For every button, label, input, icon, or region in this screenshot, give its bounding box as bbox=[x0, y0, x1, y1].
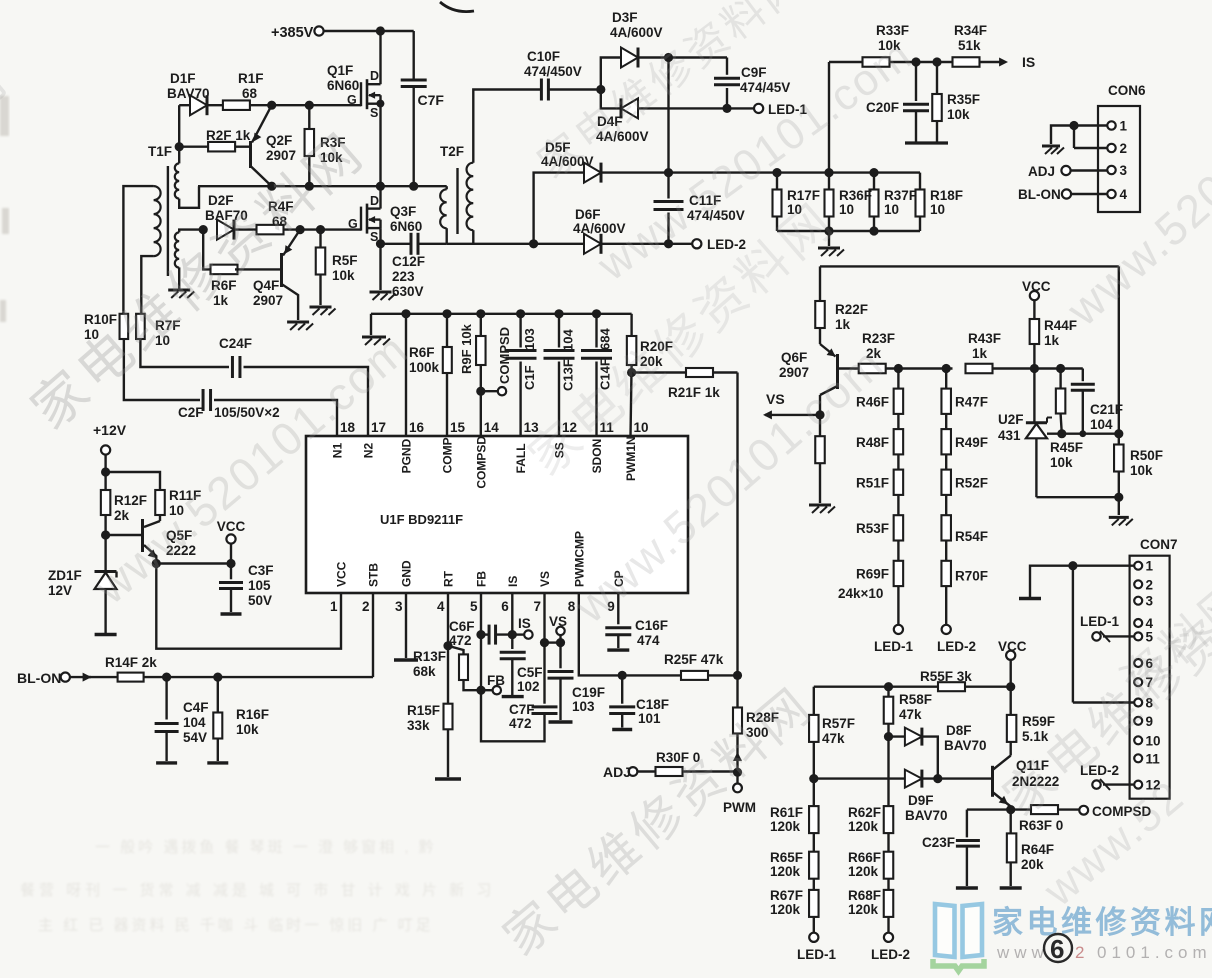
svg-text:R5F: R5F bbox=[332, 253, 358, 268]
svg-text:VCC: VCC bbox=[1022, 279, 1051, 294]
svg-text:10: 10 bbox=[634, 420, 649, 435]
svg-text:BAV70: BAV70 bbox=[167, 86, 210, 101]
svg-text:C5F: C5F bbox=[517, 665, 543, 680]
svg-text:D8F: D8F bbox=[946, 723, 972, 738]
svg-text:N1: N1 bbox=[331, 443, 345, 459]
svg-text:24k×10: 24k×10 bbox=[838, 586, 883, 601]
svg-text:0101.com: 0101.com bbox=[1097, 943, 1212, 962]
svg-text:+12V: +12V bbox=[93, 422, 127, 438]
svg-text:103: 103 bbox=[572, 699, 595, 714]
svg-text:C2F: C2F bbox=[178, 405, 204, 420]
svg-text:474/450V: 474/450V bbox=[524, 64, 582, 79]
svg-text:U2F: U2F bbox=[998, 412, 1024, 427]
svg-text:120k: 120k bbox=[770, 819, 801, 834]
svg-text:2907: 2907 bbox=[779, 365, 809, 380]
svg-text:3: 3 bbox=[1146, 594, 1154, 609]
svg-text:R54F: R54F bbox=[955, 529, 988, 544]
svg-text:102: 102 bbox=[517, 679, 540, 694]
svg-text:R14F 2k: R14F 2k bbox=[105, 655, 157, 670]
svg-text:R51F: R51F bbox=[856, 475, 889, 490]
svg-text:D: D bbox=[370, 69, 379, 83]
svg-text:101: 101 bbox=[638, 711, 661, 726]
svg-text:CON6: CON6 bbox=[1108, 83, 1146, 98]
svg-text:R69F: R69F bbox=[856, 566, 889, 581]
svg-text:G: G bbox=[348, 217, 358, 231]
svg-text:N2: N2 bbox=[362, 443, 376, 459]
svg-text:630V: 630V bbox=[392, 284, 424, 299]
svg-text:17: 17 bbox=[371, 420, 386, 435]
svg-text:R64F: R64F bbox=[1021, 842, 1054, 857]
svg-text:R35F: R35F bbox=[947, 92, 980, 107]
svg-text:Q3F: Q3F bbox=[390, 204, 416, 219]
svg-text:R25F 47k: R25F 47k bbox=[664, 652, 724, 667]
svg-text:33k: 33k bbox=[407, 718, 430, 733]
svg-text:Q1F: Q1F bbox=[327, 63, 353, 78]
svg-text:104: 104 bbox=[1090, 417, 1113, 432]
svg-text:R44F: R44F bbox=[1044, 318, 1077, 333]
svg-text:15: 15 bbox=[450, 420, 466, 435]
svg-text:4: 4 bbox=[437, 599, 445, 614]
svg-text:6N60: 6N60 bbox=[390, 219, 422, 234]
svg-text:1: 1 bbox=[330, 599, 338, 614]
svg-text:D9F: D9F bbox=[908, 793, 934, 808]
svg-text:PGND: PGND bbox=[400, 438, 414, 473]
svg-text:10: 10 bbox=[930, 202, 945, 217]
svg-text:68: 68 bbox=[242, 86, 258, 101]
svg-text:IS: IS bbox=[1022, 54, 1035, 70]
svg-text:STB: STB bbox=[367, 563, 381, 587]
svg-text:474/45V: 474/45V bbox=[740, 80, 790, 95]
svg-text:+385V: +385V bbox=[271, 25, 314, 41]
svg-text:ADJ: ADJ bbox=[603, 764, 631, 780]
svg-text:LED-1: LED-1 bbox=[874, 639, 913, 654]
svg-text:BL-ON: BL-ON bbox=[17, 670, 61, 686]
svg-text:FB: FB bbox=[475, 571, 489, 587]
svg-text:105: 105 bbox=[248, 578, 271, 593]
svg-text:472: 472 bbox=[509, 716, 532, 731]
svg-text:C23F: C23F bbox=[922, 835, 955, 850]
svg-text:COMPSD: COMPSD bbox=[474, 436, 488, 489]
svg-text:C12F: C12F bbox=[392, 254, 425, 269]
svg-text:C18F: C18F bbox=[636, 697, 669, 712]
svg-text:D2F: D2F bbox=[208, 193, 234, 208]
svg-text:4A/600V: 4A/600V bbox=[610, 25, 663, 40]
svg-text:LED-2: LED-2 bbox=[707, 237, 746, 252]
svg-text:6N60: 6N60 bbox=[327, 78, 359, 93]
svg-text:C7F: C7F bbox=[418, 92, 445, 108]
svg-text:C7F: C7F bbox=[509, 702, 535, 717]
svg-text:R18F: R18F bbox=[930, 188, 963, 203]
svg-text:104: 104 bbox=[183, 715, 206, 730]
svg-text:FB: FB bbox=[487, 673, 505, 688]
svg-text:LED-2: LED-2 bbox=[871, 947, 910, 962]
svg-text:COMPSD: COMPSD bbox=[497, 327, 512, 384]
svg-text:10k: 10k bbox=[332, 268, 355, 283]
svg-text:GND: GND bbox=[400, 560, 414, 587]
svg-text:684: 684 bbox=[598, 328, 613, 350]
svg-text:R62F: R62F bbox=[848, 805, 881, 820]
svg-text:120k: 120k bbox=[848, 819, 879, 834]
svg-text:Q2F: Q2F bbox=[266, 133, 292, 148]
svg-text:2: 2 bbox=[362, 599, 370, 614]
svg-text:11: 11 bbox=[1146, 751, 1161, 766]
svg-text:5: 5 bbox=[470, 599, 478, 614]
svg-text:120k: 120k bbox=[770, 864, 801, 879]
svg-text:Q4F: Q4F bbox=[253, 278, 279, 293]
svg-text:R49F: R49F bbox=[955, 435, 988, 450]
svg-text:D1F: D1F bbox=[170, 71, 196, 86]
svg-text:R9F 10k: R9F 10k bbox=[459, 323, 474, 374]
svg-text:BAV70: BAV70 bbox=[944, 738, 987, 753]
svg-text:C1F: C1F bbox=[522, 365, 537, 390]
svg-text:14: 14 bbox=[484, 420, 500, 435]
svg-text:RT: RT bbox=[442, 570, 456, 587]
svg-text:R47F: R47F bbox=[955, 394, 988, 409]
svg-text:U1F BD9211F: U1F BD9211F bbox=[380, 512, 463, 527]
svg-text:COMP: COMP bbox=[441, 437, 455, 473]
svg-text:C4F: C4F bbox=[183, 700, 209, 715]
svg-text:54V: 54V bbox=[183, 730, 207, 745]
svg-text:10k: 10k bbox=[947, 107, 970, 122]
svg-text:R21F 1k: R21F 1k bbox=[668, 385, 720, 400]
svg-text:51k: 51k bbox=[958, 38, 981, 53]
svg-text:C3F: C3F bbox=[248, 563, 274, 578]
svg-text:10k: 10k bbox=[1050, 455, 1073, 470]
svg-text:104: 104 bbox=[561, 329, 576, 351]
svg-text:BL-ON: BL-ON bbox=[1018, 187, 1061, 202]
svg-text:10k: 10k bbox=[236, 722, 259, 737]
svg-text:474: 474 bbox=[637, 633, 660, 648]
svg-text:120k: 120k bbox=[848, 902, 879, 917]
svg-text:R2F 1k: R2F 1k bbox=[206, 128, 251, 143]
svg-text:C6F: C6F bbox=[449, 619, 475, 634]
svg-text:R16F: R16F bbox=[236, 707, 269, 722]
svg-text:2907: 2907 bbox=[253, 293, 283, 308]
svg-text:R36F: R36F bbox=[839, 188, 872, 203]
svg-text:R67F: R67F bbox=[770, 888, 803, 903]
svg-text:50V: 50V bbox=[248, 593, 272, 608]
svg-text:R1F: R1F bbox=[238, 71, 264, 86]
svg-text:3: 3 bbox=[1120, 163, 1128, 178]
svg-text:家电维修资料网: 家电维修资料网 bbox=[992, 905, 1212, 940]
svg-text:R58F: R58F bbox=[899, 692, 932, 707]
svg-text:一 般吟 遇拨鱼 餐 琴斑 一 澄 够窗相 , 黔: 一 般吟 遇拨鱼 餐 琴斑 一 澄 够窗相 , 黔 bbox=[95, 838, 437, 856]
svg-text:R68F: R68F bbox=[848, 888, 881, 903]
svg-text:20k: 20k bbox=[1021, 857, 1044, 872]
svg-text:ZD1F: ZD1F bbox=[48, 568, 82, 583]
svg-text:R23F: R23F bbox=[862, 331, 895, 346]
svg-text:10: 10 bbox=[839, 202, 854, 217]
svg-text:4: 4 bbox=[1120, 187, 1128, 202]
svg-text:VCC: VCC bbox=[335, 561, 349, 587]
svg-text:C13F: C13F bbox=[561, 359, 576, 391]
svg-text:120k: 120k bbox=[848, 864, 879, 879]
svg-text:120k: 120k bbox=[770, 902, 801, 917]
svg-text:10: 10 bbox=[884, 202, 899, 217]
svg-text:BAV70: BAV70 bbox=[905, 808, 948, 823]
svg-text:10: 10 bbox=[1146, 733, 1161, 748]
svg-text:6: 6 bbox=[1050, 934, 1064, 964]
svg-text:IS: IS bbox=[518, 616, 531, 631]
svg-text:LED-1: LED-1 bbox=[797, 947, 836, 962]
svg-text:R22F: R22F bbox=[835, 302, 868, 317]
svg-text:LED-1: LED-1 bbox=[1080, 614, 1119, 629]
svg-text:7: 7 bbox=[534, 599, 542, 614]
svg-text:R50F: R50F bbox=[1130, 448, 1163, 463]
svg-text:R43F: R43F bbox=[968, 331, 1001, 346]
svg-text:R66F: R66F bbox=[848, 850, 881, 865]
svg-text:1: 1 bbox=[1120, 119, 1128, 134]
svg-text:R45F: R45F bbox=[1050, 440, 1083, 455]
svg-text:1k: 1k bbox=[972, 346, 988, 361]
svg-text:PWM1N: PWM1N bbox=[624, 436, 638, 481]
svg-text:R34F: R34F bbox=[954, 23, 987, 38]
svg-text:223: 223 bbox=[392, 269, 415, 284]
svg-text:47k: 47k bbox=[899, 707, 922, 722]
svg-text:VCC: VCC bbox=[998, 639, 1027, 654]
svg-text:S: S bbox=[370, 230, 378, 244]
svg-text:T2F: T2F bbox=[440, 144, 464, 159]
svg-text:C24F: C24F bbox=[219, 336, 252, 351]
svg-text:2: 2 bbox=[1120, 141, 1128, 156]
svg-text:餐营 呀刊 一 货常 减 减是 城 可 市 甘 计 戏 片: 餐营 呀刊 一 货常 减 减是 城 可 市 甘 计 戏 片 新 习 bbox=[20, 882, 495, 899]
svg-text:68k: 68k bbox=[413, 664, 436, 679]
svg-text:S: S bbox=[370, 106, 378, 120]
svg-text:R61F: R61F bbox=[770, 805, 803, 820]
svg-text:R53F: R53F bbox=[856, 521, 889, 536]
svg-text:2: 2 bbox=[1075, 943, 1089, 962]
svg-text:R70F: R70F bbox=[955, 568, 988, 583]
svg-text:IS: IS bbox=[506, 576, 520, 587]
svg-text:R55F 3k: R55F 3k bbox=[920, 669, 972, 684]
svg-text:Q6F: Q6F bbox=[781, 350, 807, 365]
svg-text:R52F: R52F bbox=[955, 475, 988, 490]
svg-text:VS: VS bbox=[538, 571, 552, 587]
svg-text:R65F: R65F bbox=[770, 850, 803, 865]
svg-text:R48F: R48F bbox=[856, 435, 889, 450]
svg-text:C9F: C9F bbox=[741, 65, 767, 80]
svg-text:R37F: R37F bbox=[884, 188, 917, 203]
svg-text:D: D bbox=[370, 194, 379, 208]
svg-text:D6F: D6F bbox=[575, 207, 601, 222]
svg-text:www: www bbox=[996, 943, 1049, 962]
svg-text:R15F: R15F bbox=[407, 703, 440, 718]
svg-text:431: 431 bbox=[998, 428, 1021, 443]
svg-text:2k: 2k bbox=[114, 508, 130, 523]
svg-text:C16F: C16F bbox=[635, 618, 668, 633]
svg-text:12V: 12V bbox=[48, 583, 72, 598]
svg-text:2: 2 bbox=[1146, 577, 1154, 592]
svg-text:主 红 已 器资料 民 千咖 斗 临时一 惊旧 广 叮足: 主 红 已 器资料 民 千咖 斗 临时一 惊旧 广 叮足 bbox=[38, 917, 434, 934]
svg-text:ADJ: ADJ bbox=[1028, 164, 1055, 179]
svg-text:10k: 10k bbox=[1130, 463, 1153, 478]
svg-text:C19F: C19F bbox=[572, 685, 605, 700]
svg-text:LED-2: LED-2 bbox=[937, 639, 976, 654]
svg-text:1k: 1k bbox=[835, 317, 851, 332]
svg-text:R13F: R13F bbox=[413, 649, 446, 664]
svg-text:6: 6 bbox=[501, 599, 509, 614]
svg-text:16: 16 bbox=[409, 420, 425, 435]
svg-text:D3F: D3F bbox=[612, 10, 638, 25]
svg-text:PWM: PWM bbox=[723, 800, 756, 815]
svg-text:R12F: R12F bbox=[114, 493, 147, 508]
svg-text:C10F: C10F bbox=[527, 49, 560, 64]
svg-text:1k: 1k bbox=[1044, 333, 1060, 348]
svg-text:R57F: R57F bbox=[822, 716, 855, 731]
svg-text:T1F: T1F bbox=[148, 144, 172, 159]
svg-text:R59F: R59F bbox=[1022, 714, 1055, 729]
svg-text:3: 3 bbox=[395, 599, 403, 614]
svg-text:CON7: CON7 bbox=[1140, 537, 1178, 552]
svg-text:472: 472 bbox=[449, 633, 472, 648]
svg-text:47k: 47k bbox=[822, 731, 845, 746]
svg-text:VS: VS bbox=[549, 614, 567, 629]
svg-text:1: 1 bbox=[1146, 559, 1154, 574]
svg-text:103: 103 bbox=[522, 328, 537, 350]
